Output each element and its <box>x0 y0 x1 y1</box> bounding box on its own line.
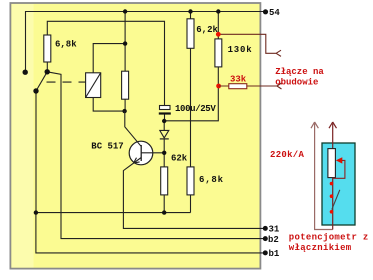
capacitor C1 top plate <box>160 106 171 110</box>
relay K1 box <box>86 73 101 98</box>
terminal 31 dot <box>263 226 268 231</box>
pot switch contact dot <box>330 194 334 198</box>
switch right contact dot <box>45 69 50 74</box>
wire relay top lead <box>93 44 125 73</box>
wire collector path <box>125 111 141 146</box>
svg-text:b2: b2 <box>268 235 279 245</box>
resistor 62k <box>161 167 168 195</box>
wire cap bottom lead <box>164 114 166 121</box>
red wire through 33k to chassis connector 2 <box>219 83 282 89</box>
pot switch pivot dot <box>330 210 334 214</box>
svg-text:62k: 62k <box>171 153 188 163</box>
wire main vertical from top rail to R2 <box>124 12 126 72</box>
wiper link wire <box>333 160 345 178</box>
node top rail x190 <box>188 9 192 13</box>
transistor emitter with arrow <box>123 158 265 229</box>
wire top rail <box>26 12 266 73</box>
wire switch lever <box>36 72 47 91</box>
red wire to chassis connector 1 <box>218 34 281 56</box>
svg-text:6,2k: 6,2k <box>196 25 218 35</box>
node rail1 left junction <box>34 210 38 214</box>
wire base line <box>141 152 164 154</box>
red node on 130k top lead <box>216 32 221 37</box>
node relay top junction <box>123 41 127 45</box>
svg-text:33k: 33k <box>230 74 247 84</box>
pale left band of panel <box>12 4 34 268</box>
transistor Q1 circle <box>129 141 153 165</box>
yellow schematic panel <box>10 3 260 269</box>
transistor base bar <box>140 145 142 161</box>
right arrow shaft <box>332 124 334 230</box>
wire 6.2k chain top lead <box>190 12 192 19</box>
red node at 33k junction <box>216 84 221 89</box>
wire 6.2k bottom to 6.8k top <box>190 48 192 167</box>
wire 62k bottom lead <box>163 195 165 213</box>
wire switch pivot down <box>35 91 37 213</box>
potentiometer wiper arrow <box>336 157 343 163</box>
switch pivot dot <box>33 88 38 93</box>
svg-text:31: 31 <box>269 224 280 234</box>
node capacitor bottom <box>162 119 166 123</box>
node top rail x218 <box>216 9 220 13</box>
resistor R2 parallel to relay <box>122 71 129 99</box>
resistor 33k red <box>229 84 247 89</box>
svg-text:Złącze na: Złącze na <box>275 67 324 77</box>
wire R2 bottom lead <box>124 99 126 111</box>
wire bottom rail1 <box>36 212 191 214</box>
node relay bottom junction <box>122 109 126 113</box>
resistor 6,2k <box>187 19 194 49</box>
terminal b1 dot <box>263 250 268 255</box>
wire 130k top lead <box>217 12 219 39</box>
terminal b2 dot <box>263 236 268 241</box>
resistor R1 6,8k left <box>44 35 51 62</box>
svg-text:100u/25V: 100u/25V <box>175 104 216 114</box>
wire diode cathode to base node <box>163 139 165 153</box>
switch left contact dot <box>23 70 28 75</box>
wire second rail to capacitor <box>47 21 164 105</box>
diode D1 triangle <box>160 130 169 138</box>
wire diode anode lead <box>163 121 165 130</box>
resistor 130k <box>215 39 222 67</box>
relay diagonal <box>86 73 101 98</box>
diode D1 cathode bar <box>160 138 169 140</box>
wire R1 bottom lead <box>46 62 48 71</box>
svg-text:włącznikiem: włącznikiem <box>289 243 352 253</box>
dashed mechanical link to relay <box>47 81 86 83</box>
terminal 54 dot <box>263 9 268 14</box>
wire 6.8k bottom lead <box>190 195 192 213</box>
svg-text:BC 517: BC 517 <box>91 141 123 151</box>
node rail1 62k junction <box>162 210 166 214</box>
wire 62k top lead <box>163 153 165 167</box>
left arrow shaft with U link <box>315 124 333 230</box>
wire switch contact to b2 terminal <box>47 72 265 239</box>
svg-text:6,8k: 6,8k <box>55 39 77 49</box>
node base junction <box>162 151 166 155</box>
potentiometer cyan box <box>322 143 355 225</box>
resistor 6,8k right <box>187 167 194 195</box>
node top rail x125 <box>123 9 127 13</box>
svg-text:b1: b1 <box>269 249 280 259</box>
wire relay bottom lead <box>93 98 124 112</box>
capacitor C1 bottom plate <box>159 112 171 114</box>
svg-text:54: 54 <box>269 8 280 18</box>
left arrowhead <box>311 122 318 128</box>
wire 130k bottom to cap node <box>164 67 218 121</box>
svg-text:potencjometr z: potencjometr z <box>289 233 369 243</box>
svg-text:obudowie: obudowie <box>275 78 318 88</box>
svg-text:220k/A: 220k/A <box>270 150 305 160</box>
svg-text:6,8k: 6,8k <box>199 175 224 185</box>
right arrowhead <box>329 122 337 128</box>
pot terminal dot 1 <box>330 182 334 186</box>
potentiometer resistor body <box>328 149 336 178</box>
transistor emitter arrowhead <box>134 158 140 163</box>
svg-text:130k: 130k <box>228 45 253 55</box>
pot switch lever <box>332 190 340 210</box>
wire b1 terminal <box>36 213 265 253</box>
